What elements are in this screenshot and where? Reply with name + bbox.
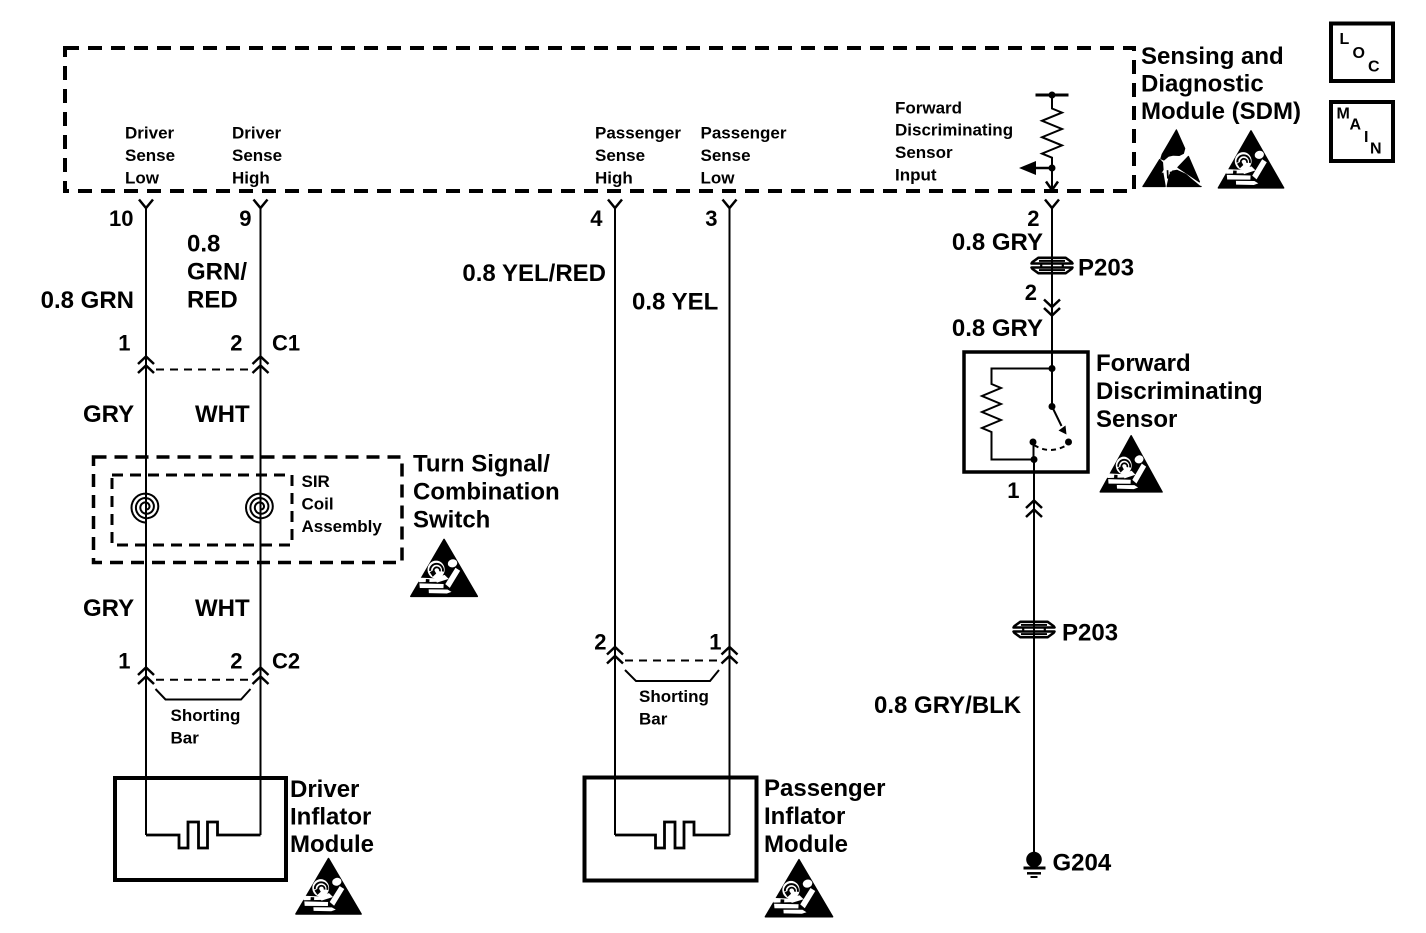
svg-text:1: 1 — [118, 331, 130, 356]
svg-text:Turn Signal/: Turn Signal/ — [413, 451, 550, 478]
svg-text:Module: Module — [764, 831, 848, 858]
svg-text:Module (SDM): Module (SDM) — [1141, 98, 1301, 125]
svg-text:WHT: WHT — [195, 595, 250, 622]
svg-text:Passenger: Passenger — [701, 124, 787, 143]
wire passenger sense high (YEL/RED) — [614, 208, 616, 835]
connector C2 dashed link — [156, 679, 250, 681]
switch contact dots — [1030, 439, 1037, 446]
SIR caution triangle (driver inflator) — [296, 858, 361, 914]
svg-text:Sensing and: Sensing and — [1141, 43, 1284, 70]
passenger connector dashed link — [625, 660, 719, 662]
svg-text:O: O — [1353, 45, 1365, 62]
passenger connector pin 1 chevrons — [722, 647, 738, 655]
pin 9 terminal fork — [254, 200, 268, 209]
svg-text:Discriminating: Discriminating — [895, 121, 1013, 140]
svg-text:Sensor: Sensor — [895, 143, 953, 162]
svg-text:Switch: Switch — [413, 507, 490, 534]
svg-text:Discriminating: Discriminating — [1096, 378, 1263, 405]
pin 3 terminal fork — [723, 200, 737, 209]
sensor bottom junction dot — [1031, 456, 1038, 463]
connector C1 dashed link — [156, 369, 250, 371]
connector C1 pin 1 chevrons — [138, 357, 154, 365]
svg-text:Sensor: Sensor — [1096, 406, 1177, 433]
svg-text:Sense: Sense — [595, 146, 645, 165]
SIR caution triangle (SDM) — [1218, 131, 1283, 188]
svg-text:2: 2 — [594, 630, 606, 655]
resistor forward discriminating sensor — [982, 369, 1052, 460]
connector C2 pin 2 chevrons — [253, 668, 269, 676]
svg-text:0.8 YEL: 0.8 YEL — [632, 289, 718, 316]
ESD caution triangle (SDM) — [1143, 130, 1201, 187]
svg-text:10: 10 — [109, 206, 133, 231]
sensor internal top junction dot — [1049, 365, 1056, 372]
svg-text:1: 1 — [709, 630, 721, 655]
svg-text:Sense: Sense — [125, 146, 175, 165]
svg-text:0.8 GRY: 0.8 GRY — [952, 229, 1043, 256]
svg-text:WHT: WHT — [195, 401, 250, 428]
sensor pin 1 chevrons — [1026, 501, 1042, 509]
svg-text:0.8: 0.8 — [187, 231, 220, 258]
squib driver inflator — [146, 822, 261, 848]
SIR coil assembly outer dashed box (turn signal/combination switch) — [94, 457, 403, 563]
svg-text:P203: P203 — [1062, 620, 1118, 647]
svg-text:Passenger: Passenger — [764, 775, 885, 802]
svg-text:Sense: Sense — [701, 146, 751, 165]
svg-text:Low: Low — [701, 168, 736, 187]
coil driver sense low (clockspring) — [132, 494, 159, 523]
wire SDM pin 2 internal with male terminal arrow — [1051, 168, 1053, 189]
in-line connector P203 lower — [1014, 622, 1055, 638]
SIR coil assembly inner dashed box — [112, 475, 292, 545]
passenger connector pin 2 chevrons — [607, 647, 623, 655]
svg-text:0.8 GRY: 0.8 GRY — [952, 315, 1043, 342]
SIR caution triangle (forward discriminating sensor) — [1100, 436, 1162, 492]
svg-text:Forward: Forward — [895, 98, 962, 117]
pin 4 terminal fork — [608, 200, 622, 209]
shorting bar bracket passenger — [625, 670, 719, 681]
svg-text:Shorting: Shorting — [639, 687, 709, 706]
connector C1 pin 2 chevrons — [253, 357, 269, 365]
svg-text:Assembly: Assembly — [302, 517, 383, 536]
svg-text:High: High — [232, 168, 270, 187]
SDM connector dashed box — [65, 48, 1134, 191]
svg-text:Forward: Forward — [1096, 350, 1191, 377]
wire sensor to ground (GRY/BLK) — [1033, 460, 1035, 853]
svg-text:GRN/: GRN/ — [187, 259, 247, 286]
junction dot SDM sensor input — [1049, 165, 1056, 172]
switch forward discriminating sensor — [1051, 369, 1053, 407]
switch dashed travel arc — [1034, 445, 1067, 450]
svg-text:C1: C1 — [272, 331, 300, 356]
svg-text:Inflator: Inflator — [290, 804, 371, 831]
svg-text:Passenger: Passenger — [595, 124, 681, 143]
svg-text:I: I — [1364, 129, 1368, 146]
wire driver sense low (GRN/GRY) — [145, 208, 147, 835]
svg-text:GRY: GRY — [83, 595, 134, 622]
svg-text:2: 2 — [230, 649, 242, 674]
svg-text:GRY: GRY — [83, 401, 134, 428]
svg-text:Driver: Driver — [290, 776, 359, 803]
svg-text:3: 3 — [705, 206, 717, 231]
svg-text:RED: RED — [187, 287, 238, 314]
wire passenger sense low (YEL) — [729, 208, 731, 835]
svg-text:2: 2 — [1025, 280, 1037, 305]
arrow to sensor input — [1035, 167, 1052, 170]
squib passenger inflator — [615, 822, 730, 848]
svg-text:P203: P203 — [1078, 255, 1134, 282]
svg-text:Inflator: Inflator — [764, 803, 845, 830]
pin 10 terminal fork — [139, 200, 153, 209]
svg-text:Module: Module — [290, 831, 374, 858]
svg-text:2: 2 — [1027, 206, 1039, 231]
svg-text:0.8 GRY/BLK: 0.8 GRY/BLK — [874, 692, 1022, 719]
svg-text:Driver: Driver — [232, 124, 282, 143]
ground G204 — [1026, 852, 1042, 868]
svg-text:N: N — [1370, 141, 1382, 158]
wire driver sense high (GRN-RED/WHT) — [260, 208, 262, 835]
svg-text:0.8 YEL/RED: 0.8 YEL/RED — [462, 260, 606, 287]
svg-text:2: 2 — [230, 331, 242, 356]
svg-text:Low: Low — [125, 168, 160, 187]
wire SDM pin 2 to forward discriminating sensor (GRY) — [1051, 208, 1053, 369]
SIR caution triangle (passenger inflator) — [765, 860, 832, 917]
svg-text:1: 1 — [1007, 478, 1019, 503]
svg-text:Shorting: Shorting — [171, 706, 241, 725]
passenger inflator module box — [585, 778, 757, 881]
driver inflator module box — [115, 778, 286, 880]
svg-text:Bar: Bar — [639, 709, 668, 728]
svg-text:Diagnostic: Diagnostic — [1141, 71, 1264, 98]
svg-text:A: A — [1350, 117, 1362, 134]
coil driver sense high (clockspring) — [246, 494, 273, 523]
MAIN reference box — [1331, 102, 1393, 161]
svg-text:Combination: Combination — [413, 479, 560, 506]
resistor SDM sensor input pull-up — [1036, 94, 1069, 97]
svg-text:L: L — [1340, 31, 1350, 48]
in-line connector P203 upper — [1032, 258, 1073, 274]
svg-text:4: 4 — [590, 206, 603, 231]
SIR caution triangle (turn signal switch) — [411, 539, 478, 596]
svg-text:C: C — [1368, 59, 1380, 76]
connector C2 pin 1 chevrons — [138, 668, 154, 676]
svg-text:Bar: Bar — [171, 728, 200, 747]
svg-text:SIR: SIR — [302, 472, 330, 491]
svg-text:Sense: Sense — [232, 146, 282, 165]
svg-text:High: High — [595, 168, 633, 187]
shorting bar bracket driver — [156, 689, 251, 700]
svg-text:G204: G204 — [1053, 850, 1112, 877]
svg-text:Coil: Coil — [302, 494, 334, 513]
P203 male terminal chevrons — [1044, 300, 1060, 308]
svg-text:Driver: Driver — [125, 124, 175, 143]
svg-text:0.8 GRN: 0.8 GRN — [41, 287, 134, 314]
svg-text:1: 1 — [118, 649, 130, 674]
LOC reference box — [1331, 24, 1393, 82]
forward discriminating sensor box — [964, 352, 1088, 472]
svg-text:M: M — [1337, 106, 1350, 123]
svg-text:9: 9 — [239, 206, 251, 231]
svg-text:Input: Input — [895, 166, 937, 185]
svg-text:C2: C2 — [272, 649, 300, 674]
pin 2 terminal fork — [1045, 200, 1059, 209]
